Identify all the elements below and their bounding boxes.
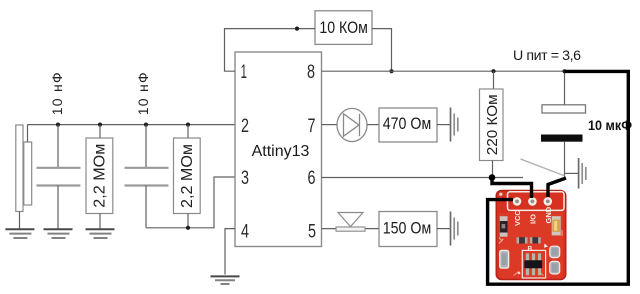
node: bus junction C1 xyxy=(56,123,60,127)
capacitor C1 bottom plate xyxy=(37,184,81,186)
capacitor C1 top plate xyxy=(37,167,81,169)
module pad I/O xyxy=(528,197,537,206)
wire: VCC to C3 xyxy=(564,71,566,105)
module component: bottom-left cap xyxy=(500,251,509,269)
wire: C1 bottom plate to ground xyxy=(57,186,59,230)
wire: R5 to ground xyxy=(437,124,451,126)
thick wire: VCC loop to module VCC pad xyxy=(488,71,629,284)
ground right-facing near switch xyxy=(579,158,586,189)
resistor R3 2,2 МОм xyxy=(174,138,201,214)
wire: R6 to ground xyxy=(437,228,451,230)
module component: resistor B xyxy=(530,237,541,243)
wire: electrode left plate to ground xyxy=(19,212,21,230)
ground under C1 xyxy=(44,229,73,238)
svg-text:VCC: VCC xyxy=(513,210,522,226)
op IC U1 Attiny13 body xyxy=(235,52,322,247)
node: junction VCC/C3 xyxy=(563,69,567,73)
resistor R4 220 КОм xyxy=(480,89,504,161)
svg-text:3: 3 xyxy=(241,168,249,189)
wire: R4 bottom to pin6 net xyxy=(492,161,494,178)
wire: R1 right to pin8 net xyxy=(372,29,392,72)
wire: R3 bottom down xyxy=(187,213,189,228)
module silk dot bottom-left xyxy=(518,272,521,275)
wire: pin4 to ground xyxy=(225,229,235,275)
ground under R2 xyxy=(86,229,115,238)
ground under electrode xyxy=(5,229,34,238)
wire: pin2 sensor bus xyxy=(27,124,235,126)
svg-text:150 Ом: 150 Ом xyxy=(383,219,432,238)
ground right of R5 xyxy=(451,108,458,142)
diode D2 triangle xyxy=(338,213,363,227)
wire: pin7 to LED xyxy=(322,124,338,126)
svg-text:2: 2 xyxy=(241,116,249,137)
diode D2 cathode bar xyxy=(336,227,365,231)
capacitor C2 top plate xyxy=(125,167,169,169)
svg-text:5: 5 xyxy=(308,221,316,242)
node: junction R1/pin8 xyxy=(389,69,393,73)
module pad VCC xyxy=(513,197,522,206)
module IC TTP223 footprint silk xyxy=(522,250,545,278)
svg-text:10 нФ: 10 нФ xyxy=(135,72,151,115)
svg-text:8: 8 xyxy=(307,62,315,83)
module component: resistor A xyxy=(517,237,528,243)
sensor electrode E1 right plate xyxy=(24,142,32,205)
module component: left capacitor xyxy=(500,216,508,237)
node: thick junction pin6/R4 xyxy=(489,174,496,181)
wire: C2 bottom plate down xyxy=(145,186,147,228)
svg-text:7: 7 xyxy=(308,116,316,137)
wire: bottom link C2/R3 to pin3 xyxy=(146,177,235,228)
node: bus junction R2 xyxy=(98,123,102,127)
wire: bus to R3 xyxy=(187,125,189,138)
module silk frame around pads xyxy=(508,192,565,211)
svg-text:470 Ом: 470 Ом xyxy=(383,114,432,133)
svg-text:GND: GND xyxy=(544,206,553,223)
svg-text:4: 4 xyxy=(241,221,249,242)
switch arm (touch contact) xyxy=(521,159,565,176)
node: bus junction R3 xyxy=(186,123,190,127)
svg-text:1: 1 xyxy=(241,62,248,83)
svg-text:U пит = 3,6: U пит = 3,6 xyxy=(513,48,581,64)
svg-text:B: B xyxy=(528,246,533,253)
module silk squiggle bottom xyxy=(514,272,544,276)
LED D1 xyxy=(337,108,367,141)
wire: electrode right plate to bus xyxy=(27,125,29,142)
wire: VCC to R4 xyxy=(493,71,495,89)
resistor R1 10 КОм xyxy=(315,11,372,45)
module silk squiggle left xyxy=(499,238,504,244)
wire: R2 to ground xyxy=(99,213,101,229)
module board xyxy=(496,190,567,280)
svg-text:10 КОм: 10 КОм xyxy=(319,18,368,37)
resistor R6 150 Ом xyxy=(379,212,437,247)
module component: right cap B xyxy=(550,261,560,274)
thick wire: pin6 to module I/O pad xyxy=(492,177,532,198)
wire: R1 left to pin1 xyxy=(225,29,316,72)
svg-text:2,2 МОм: 2,2 МОм xyxy=(92,144,109,208)
wire: pin5 to R6 xyxy=(322,228,380,230)
module pad GND xyxy=(544,197,553,206)
capacitor C3 bottom plate xyxy=(541,135,583,142)
module silk arrow mark xyxy=(544,244,548,248)
sensor electrode E1 left plate xyxy=(16,125,23,212)
wire: pin6 net xyxy=(322,177,524,179)
node: junction R4 top xyxy=(491,69,495,73)
touch module PCB photo xyxy=(496,190,567,280)
wire: bus to R2 xyxy=(99,125,101,138)
svg-text:2,2 МОм: 2,2 МОм xyxy=(179,144,196,208)
svg-text:6: 6 xyxy=(308,168,316,189)
resistor R5 470 Ом xyxy=(379,108,437,142)
wire: pin8 VCC net xyxy=(322,70,565,72)
svg-text:I/O: I/O xyxy=(529,214,538,224)
svg-text:Attiny13: Attiny13 xyxy=(252,143,310,160)
wire: bus to C1 top plate xyxy=(57,125,59,168)
module component: right LED (amber) xyxy=(552,216,561,235)
svg-text:10 нФ: 10 нФ xyxy=(49,72,65,115)
module component: right cap A xyxy=(550,246,560,257)
node: dot on R1 left wire xyxy=(295,27,299,31)
svg-text:220 КОм: 220 КОм xyxy=(484,94,501,155)
ground right of R6 xyxy=(451,212,458,246)
node: bus junction C2 xyxy=(144,123,148,127)
capacitor C3 10 мкФ top plate xyxy=(542,105,586,113)
thick wire: module GND pad up to ground node xyxy=(548,178,566,197)
wire: C3 bottom down to node xyxy=(564,142,566,177)
svg-text:10 мкФ: 10 мкФ xyxy=(588,117,632,133)
module silk tick right xyxy=(561,230,563,236)
resistor R2 2,2 МОм xyxy=(86,138,113,214)
wire: LED to R5 xyxy=(367,124,379,126)
ground under pin4 xyxy=(211,276,240,284)
module fiducial dot xyxy=(499,193,502,196)
node: junction R3 bottom xyxy=(186,226,190,230)
capacitor C2 bottom plate xyxy=(125,184,169,186)
wire: bus to C2 top plate xyxy=(145,125,147,168)
module IC TTP223 xyxy=(524,253,542,275)
wire: node to tilted ground xyxy=(565,172,579,174)
